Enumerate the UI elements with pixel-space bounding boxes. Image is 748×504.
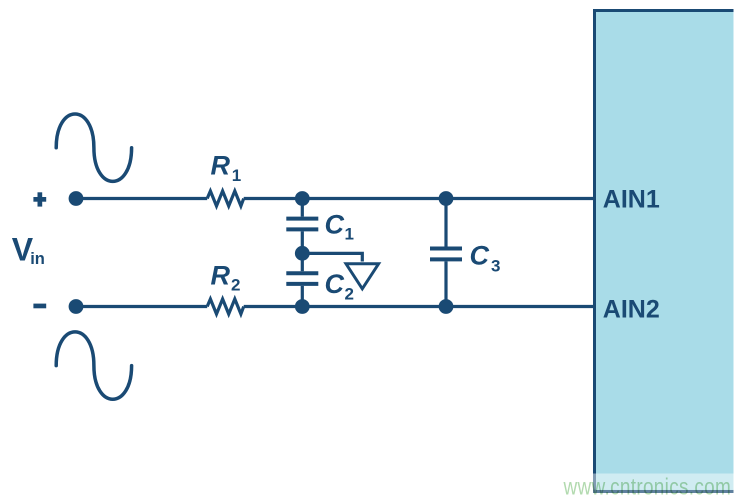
svg-text:AIN2: AIN2 [603,296,660,324]
svg-text:C: C [325,210,345,240]
svg-text:2: 2 [345,284,354,303]
svg-text:R: R [211,261,231,291]
svg-text:2: 2 [231,276,240,295]
svg-text:C: C [325,269,345,299]
svg-text:in: in [30,250,45,268]
svg-text:3: 3 [491,256,500,275]
svg-text:1: 1 [232,166,241,185]
svg-text:R: R [211,151,231,181]
svg-text:AIN1: AIN1 [603,186,660,214]
svg-text:www.cntronics.com: www.cntronics.com [563,475,732,500]
svg-text:1: 1 [345,225,354,244]
svg-text:C: C [470,241,490,271]
